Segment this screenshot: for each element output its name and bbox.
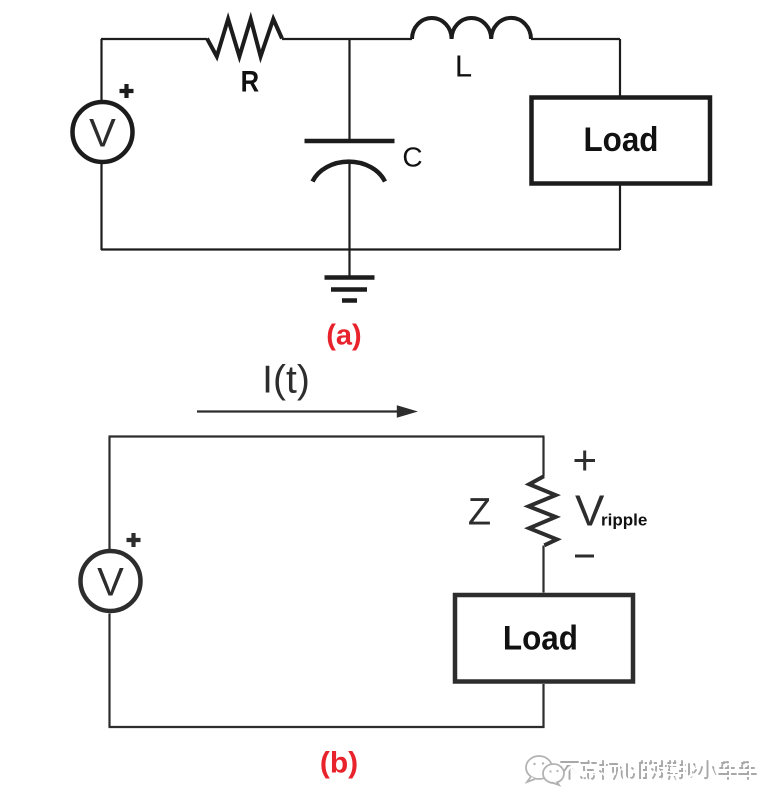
svg-text:ripple: ripple bbox=[601, 511, 647, 530]
svg-text:Load: Load bbox=[503, 620, 578, 658]
svg-text:I(t): I(t) bbox=[262, 359, 310, 402]
svg-text:L: L bbox=[455, 48, 472, 83]
svg-text:(b): (b) bbox=[320, 747, 358, 780]
svg-text:(a): (a) bbox=[326, 320, 361, 352]
svg-text:Load: Load bbox=[584, 121, 659, 159]
svg-text:R: R bbox=[241, 66, 260, 99]
svg-text:Z: Z bbox=[468, 492, 491, 534]
svg-text:V: V bbox=[97, 561, 124, 605]
svg-text:V: V bbox=[89, 112, 116, 156]
svg-text:C: C bbox=[402, 142, 422, 173]
